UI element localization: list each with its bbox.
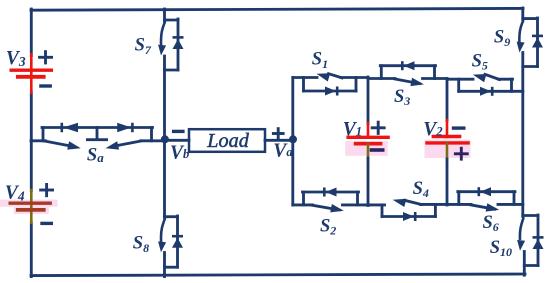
svg-text:Load: Load <box>206 130 249 152</box>
